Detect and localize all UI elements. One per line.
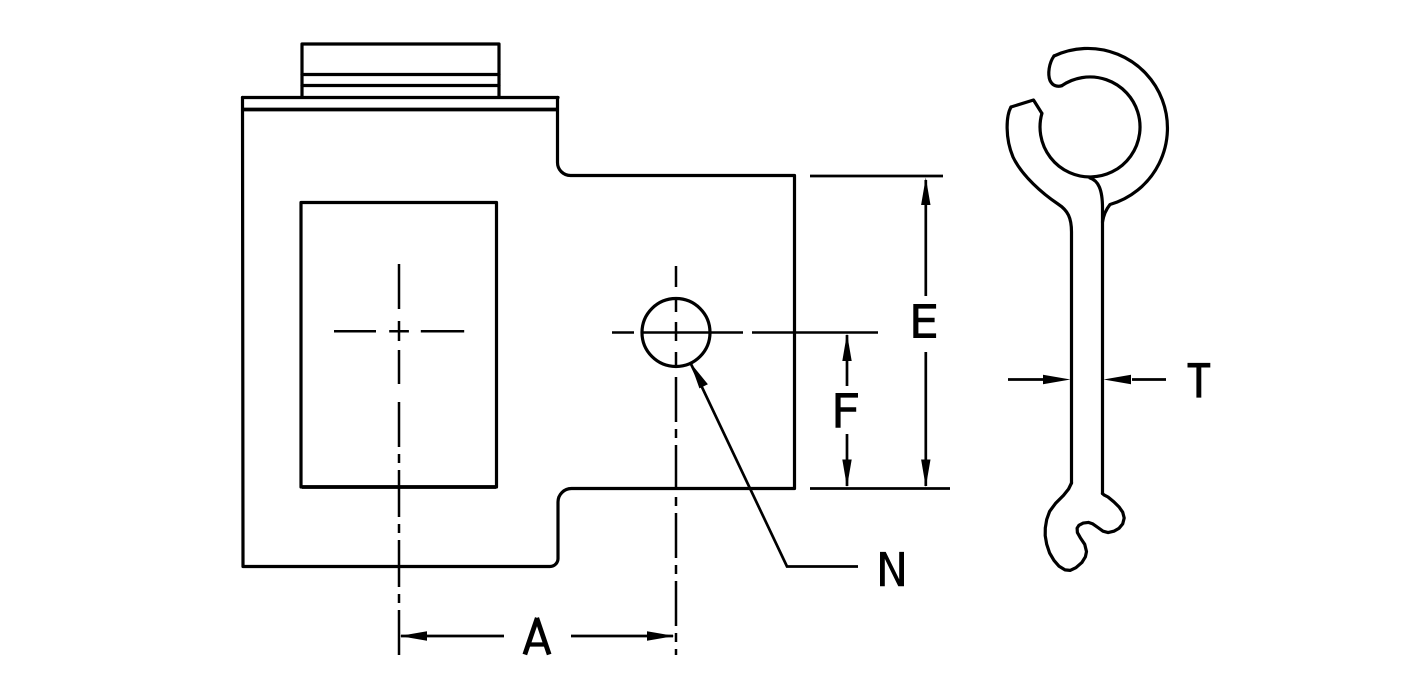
window rectangle bbox=[301, 203, 497, 488]
hole vertical centerline bbox=[675, 266, 678, 655]
side view: left terminal end face bbox=[1011, 100, 1042, 113]
dimension F arrow up bbox=[842, 334, 851, 362]
window horizontal centerline bbox=[334, 330, 464, 333]
body outline bbox=[243, 98, 795, 567]
dimension T arrow left-pointing bbox=[1104, 375, 1132, 384]
front view: screw cap outline bbox=[302, 44, 499, 97]
hole circle N bbox=[642, 299, 710, 367]
leader N arrowhead bbox=[690, 363, 708, 389]
dimension T line left bbox=[1008, 378, 1044, 381]
side view: inner ring arc bbox=[1040, 77, 1140, 177]
dimension T line right bbox=[1132, 378, 1166, 381]
window bottom edge (thick) bbox=[302, 485, 496, 489]
dimension F line bbox=[846, 335, 849, 486]
dimension A line left bbox=[401, 635, 504, 638]
dimension F arrow down bbox=[842, 460, 851, 488]
side view: top terminal end face bbox=[1049, 56, 1062, 86]
plate top edge bbox=[243, 96, 559, 99]
cap thread line 1 bbox=[302, 73, 499, 76]
label A bbox=[526, 620, 549, 652]
window vertical centerline bbox=[398, 264, 401, 655]
dimension A arrow left bbox=[400, 631, 428, 640]
dimension E extension line top bbox=[810, 175, 943, 178]
label N bbox=[880, 552, 904, 586]
dimension E line bbox=[924, 180, 927, 486]
plate bottom edge (thick) bbox=[244, 108, 556, 112]
leader line N bbox=[691, 364, 858, 567]
hole horizontal centerline bbox=[612, 331, 878, 334]
side view: bottom foot outline bbox=[1045, 483, 1124, 570]
label F bbox=[836, 393, 859, 428]
dimension A arrow right bbox=[647, 631, 675, 640]
dimension T arrow right-pointing bbox=[1043, 375, 1071, 384]
cap thread line 2 bbox=[302, 84, 499, 87]
dimension E arrow down bbox=[921, 460, 930, 488]
dimension A line right bbox=[571, 635, 673, 638]
label T bbox=[1188, 363, 1211, 398]
side view: stem right edge from inner arc bbox=[1090, 178, 1103, 494]
dimension E arrow up bbox=[921, 178, 930, 206]
dimension E/F extension line bottom bbox=[810, 487, 950, 490]
side view: left arm outer edge into stem left edge bbox=[1007, 107, 1071, 483]
side view: outer ring arc bbox=[1054, 48, 1167, 222]
label E bbox=[913, 304, 936, 338]
